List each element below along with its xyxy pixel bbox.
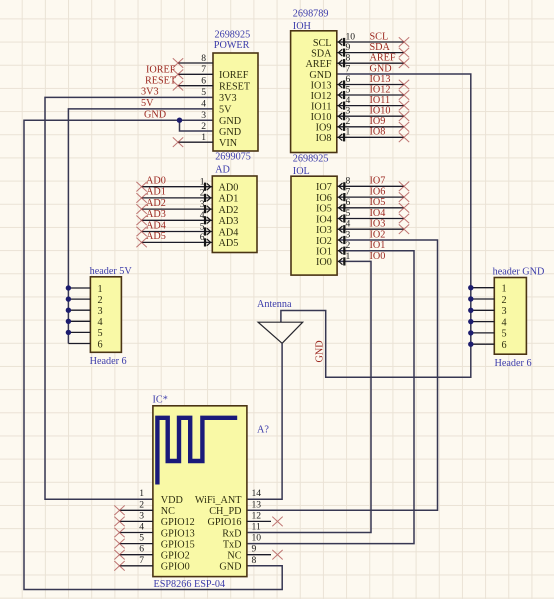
IOH pin 3 (IO10)	[337, 106, 409, 121]
label Antenna	[257, 299, 292, 310]
svg-text:SDA: SDA	[370, 42, 391, 53]
svg-text:AD3: AD3	[219, 216, 239, 227]
svg-text:Antenna: Antenna	[257, 299, 292, 310]
svg-text:10: 10	[252, 533, 262, 544]
header 5V pin 4	[68, 320, 90, 322]
svg-text:IO9: IO9	[370, 116, 386, 127]
net label IO11	[370, 95, 391, 106]
svg-text:SDA: SDA	[311, 48, 332, 59]
svg-text:GPIO0: GPIO0	[161, 562, 190, 573]
svg-text:IO8: IO8	[370, 127, 386, 138]
junction on GND bus	[468, 285, 473, 290]
svg-text:6: 6	[200, 232, 205, 243]
svg-text:IO4: IO4	[370, 208, 386, 219]
connector header GND	[493, 266, 545, 369]
net label IO3	[370, 219, 386, 230]
net label IO8	[370, 127, 386, 138]
svg-text:AD2: AD2	[146, 198, 166, 209]
svg-text:VIN: VIN	[219, 138, 238, 149]
svg-text:GPIO15: GPIO15	[161, 539, 195, 550]
ESP8266 pin 14 (WiFi_ANT)	[252, 488, 262, 499]
IOH pin 7 (GND)	[346, 63, 351, 74]
net GND wire: IOH GND to header GND bus to antenna gnd	[281, 74, 471, 377]
svg-text:IO7: IO7	[370, 176, 386, 187]
svg-text:2: 2	[502, 295, 507, 306]
ESP8266 pin 8 (GND)	[252, 555, 257, 566]
svg-text:10: 10	[346, 31, 356, 42]
IC U1 ESP8266 ESP-04 module	[153, 395, 247, 590]
IOH pin 1 (IO8)	[337, 127, 409, 142]
svg-text:Header 6: Header 6	[495, 358, 532, 369]
net label IO2	[370, 229, 386, 240]
svg-text:5: 5	[201, 87, 206, 98]
net label IO10	[370, 106, 391, 117]
svg-text:IO5: IO5	[370, 197, 386, 208]
svg-text:6: 6	[502, 340, 507, 351]
svg-text:IOL: IOL	[293, 166, 310, 177]
svg-text:GPIO16: GPIO16	[208, 517, 242, 528]
svg-text:6: 6	[346, 197, 351, 208]
svg-text:14: 14	[252, 488, 262, 499]
svg-text:13: 13	[252, 499, 262, 510]
net label GND	[144, 109, 166, 120]
net label IO7	[370, 176, 386, 187]
IOH pin 4 (IO11)	[337, 95, 409, 110]
net label 3V3	[141, 87, 159, 98]
junction on 5V bus	[66, 330, 71, 335]
AD pin 5 net AD4	[136, 221, 212, 236]
svg-text:6: 6	[346, 74, 351, 85]
svg-text:IC*: IC*	[153, 395, 168, 406]
connector header 5V	[90, 266, 133, 367]
net 5V wire: POWER pin4 to header 5V bus	[68, 109, 213, 344]
svg-text:1: 1	[98, 284, 103, 295]
svg-text:WiFi_ANT: WiFi_ANT	[195, 495, 242, 506]
svg-text:3: 3	[200, 199, 205, 210]
svg-text:5: 5	[139, 533, 144, 544]
IOH pin 8 (AREF)	[337, 53, 409, 68]
net WiFi_ANT wire: antenna apex to ESP8266 pin14	[247, 343, 282, 499]
svg-text:AD3: AD3	[146, 209, 166, 220]
svg-text:IO6: IO6	[316, 193, 332, 204]
svg-text:AREF: AREF	[305, 59, 331, 70]
net label IO12	[370, 84, 391, 95]
net label IO5	[370, 197, 386, 208]
ESP8266 pin 13 (CH_PD)	[252, 499, 262, 510]
svg-text:RxD: RxD	[222, 528, 241, 539]
junction on 5V bus	[66, 296, 71, 301]
wire GND jumper to POWER pin2	[180, 120, 214, 131]
svg-text:IO4: IO4	[316, 214, 332, 225]
svg-text:7: 7	[201, 64, 206, 75]
svg-text:ESP8266 ESP-04: ESP8266 ESP-04	[154, 579, 226, 590]
ESP8266 pin 12 (GPIO16)	[247, 510, 283, 526]
IOL pin 8 (IO7)	[337, 176, 409, 191]
svg-text:2: 2	[346, 240, 351, 251]
svg-text:IO3: IO3	[370, 219, 386, 230]
svg-text:8: 8	[346, 53, 351, 64]
svg-text:6: 6	[139, 544, 144, 555]
ESP8266 pin 7 (GPIO0)	[114, 555, 153, 571]
svg-text:GND: GND	[219, 116, 241, 127]
svg-text:IOREF: IOREF	[219, 70, 249, 81]
svg-text:IO11: IO11	[370, 95, 391, 106]
POWER pin 3	[201, 110, 206, 121]
svg-text:IO10: IO10	[370, 106, 391, 117]
IOH pin 9 (SDA)	[337, 42, 409, 57]
svg-text:7: 7	[346, 187, 351, 198]
svg-text:IO13: IO13	[311, 80, 332, 91]
junction on GND bus	[468, 308, 473, 313]
AD pin 4 net AD3	[136, 210, 212, 225]
svg-text:IO0: IO0	[316, 257, 332, 268]
svg-text:4: 4	[98, 317, 103, 328]
junction on 5V bus	[66, 285, 71, 290]
svg-text:4: 4	[502, 317, 507, 328]
IOL pin 6 (IO5)	[337, 197, 409, 212]
svg-text:1: 1	[139, 488, 144, 499]
svg-text:2: 2	[139, 499, 144, 510]
ESP8266 pin 1 (VDD)	[139, 488, 144, 499]
svg-text:3: 3	[346, 106, 351, 117]
POWER pin 4	[201, 99, 206, 110]
svg-text:IO12: IO12	[311, 91, 332, 102]
svg-text:GND: GND	[144, 109, 166, 120]
svg-text:9: 9	[252, 544, 257, 555]
IOL pin 4 (IO3)	[337, 219, 409, 234]
svg-text:6: 6	[98, 339, 103, 350]
svg-text:3: 3	[346, 229, 351, 240]
svg-text:7: 7	[139, 555, 144, 566]
ESP8266 pin 4 (GPIO13)	[114, 522, 153, 538]
IOH pin 5 (IO12)	[337, 84, 409, 99]
header 5V pin 6	[68, 343, 90, 345]
POWER pin 5	[201, 87, 206, 98]
svg-text:2: 2	[201, 121, 206, 132]
svg-text:GPIO13: GPIO13	[161, 528, 195, 539]
header 5V pin 3	[68, 309, 90, 311]
connector IOH (2698789)	[291, 9, 337, 153]
svg-text:IOREF: IOREF	[146, 65, 176, 76]
svg-text:GPIO2: GPIO2	[161, 551, 190, 562]
svg-text:1: 1	[200, 177, 205, 188]
svg-text:3V3: 3V3	[141, 87, 159, 98]
net label IO13	[370, 74, 391, 85]
svg-text:IO11: IO11	[311, 101, 332, 112]
net IO2 wire: IOL to ESP8266 CH_PD	[247, 240, 438, 510]
POWER pin 7	[173, 64, 213, 79]
POWER pin 1	[173, 132, 213, 147]
svg-text:SCL: SCL	[313, 38, 332, 49]
svg-text:2: 2	[346, 116, 351, 127]
svg-text:8: 8	[201, 53, 206, 64]
connector AD (2699075)	[212, 152, 257, 253]
svg-text:VDD: VDD	[161, 495, 183, 506]
net label AD1	[146, 187, 166, 198]
net label IO9	[370, 116, 386, 127]
svg-text:IO0: IO0	[370, 251, 386, 262]
svg-text:GND: GND	[219, 562, 241, 573]
svg-text:5: 5	[98, 328, 103, 339]
ESP8266 pin 9 (NC)	[247, 544, 283, 560]
header GND pin 6	[471, 343, 495, 345]
header 5V pin 1	[68, 287, 90, 289]
svg-text:GND: GND	[219, 127, 241, 138]
IOH pin 6 (IO13)	[337, 74, 409, 89]
junction on GND at POWER pin2 drop	[177, 118, 182, 123]
svg-text:4: 4	[346, 219, 351, 230]
ESP8266 pcb antenna trace graphic	[157, 418, 237, 485]
svg-text:AD1: AD1	[219, 194, 239, 205]
header GND pin 5	[471, 332, 495, 334]
svg-text:NC: NC	[161, 506, 175, 517]
label A?	[257, 425, 269, 436]
svg-text:2698925: 2698925	[293, 153, 329, 164]
POWER pin 6	[173, 76, 213, 91]
svg-text:5: 5	[346, 208, 351, 219]
IOL pin 2 (IO1)	[339, 240, 351, 255]
ESP8266 pin 11 (RxD)	[252, 522, 261, 533]
net label AD0	[146, 176, 166, 187]
svg-text:3V3: 3V3	[219, 93, 237, 104]
svg-text:IO10: IO10	[311, 112, 332, 123]
svg-text:GND: GND	[370, 63, 392, 74]
IOH pin 10 (SCL)	[337, 31, 409, 46]
svg-text:AD2: AD2	[219, 205, 239, 216]
net IO1 wire: IOL to ESP8266 TxD	[247, 251, 414, 544]
svg-text:5: 5	[502, 329, 507, 340]
svg-text:AD1: AD1	[146, 187, 166, 198]
svg-text:IO9: IO9	[316, 123, 332, 134]
svg-text:6: 6	[201, 76, 206, 87]
svg-text:5: 5	[346, 84, 351, 95]
net label IO0	[370, 251, 386, 262]
net GND wire: POWER pin3 to bottom rail to ESP8266 pin8	[24, 120, 282, 589]
svg-text:3: 3	[139, 510, 144, 521]
net label AD3	[146, 209, 166, 220]
svg-text:TxD: TxD	[223, 539, 242, 550]
svg-text:AD4: AD4	[219, 227, 239, 238]
ESP8266 pin 5 (GPIO15)	[114, 533, 153, 549]
header GND pin 2	[471, 298, 495, 300]
svg-text:CH_PD: CH_PD	[209, 506, 241, 517]
svg-text:12: 12	[252, 510, 262, 521]
svg-text:IO8: IO8	[316, 133, 332, 144]
svg-text:2699075: 2699075	[215, 152, 251, 163]
antenna symbol	[258, 322, 303, 343]
svg-text:2698925: 2698925	[215, 30, 251, 41]
svg-text:1: 1	[201, 132, 206, 143]
svg-text:8: 8	[252, 555, 257, 566]
svg-text:5V: 5V	[219, 105, 232, 116]
header GND pin 3	[471, 309, 495, 311]
svg-text:RESET: RESET	[145, 76, 177, 87]
net label AREF	[370, 53, 396, 64]
svg-text:AD4: AD4	[146, 220, 166, 231]
IOH pin 2 (IO9)	[337, 116, 409, 131]
connector IOL (2698925)	[291, 153, 337, 275]
svg-text:IO5: IO5	[316, 204, 332, 215]
svg-text:GND: GND	[309, 70, 331, 81]
svg-text:IO1: IO1	[370, 240, 386, 251]
svg-text:IO12: IO12	[370, 84, 391, 95]
svg-text:1: 1	[346, 127, 351, 138]
svg-text:5: 5	[200, 221, 205, 232]
svg-text:4: 4	[201, 99, 206, 110]
POWER pin 2	[201, 121, 206, 132]
junction on GND bus	[468, 319, 473, 324]
header GND pin 1	[471, 287, 495, 289]
net label IO4	[370, 208, 386, 219]
svg-text:header 5V: header 5V	[90, 266, 133, 277]
svg-text:IO3: IO3	[316, 225, 332, 236]
svg-text:1: 1	[502, 284, 507, 295]
svg-text:3: 3	[502, 306, 507, 317]
header GND pin 4	[471, 321, 495, 323]
ESP8266 pin 3 (GPIO12)	[114, 510, 153, 526]
svg-text:AREF: AREF	[370, 53, 396, 64]
svg-text:AD5: AD5	[146, 231, 166, 242]
net label GND	[370, 63, 392, 74]
svg-text:2: 2	[98, 295, 103, 306]
svg-text:RESET: RESET	[219, 82, 251, 93]
svg-text:IO1: IO1	[316, 247, 332, 258]
IOL pin 3 (IO2)	[339, 229, 351, 244]
svg-text:AD: AD	[215, 164, 230, 175]
svg-text:IOH: IOH	[293, 21, 312, 32]
svg-text:8: 8	[346, 176, 351, 187]
net label GND (rotated, antenna ground)	[315, 340, 326, 362]
svg-text:2698789: 2698789	[293, 9, 329, 20]
IOL pin 1 (IO0)	[339, 251, 351, 266]
svg-text:AD5: AD5	[219, 238, 239, 249]
svg-text:5V: 5V	[141, 98, 154, 109]
svg-text:7: 7	[346, 63, 351, 74]
svg-text:3: 3	[98, 306, 103, 317]
net label 5V	[141, 98, 154, 109]
svg-text:GPIO12: GPIO12	[161, 517, 195, 528]
svg-text:AD0: AD0	[146, 176, 166, 187]
header 5V pin 5	[68, 331, 90, 333]
header 5V pin 2	[68, 298, 90, 300]
svg-text:1: 1	[346, 251, 351, 262]
svg-text:POWER: POWER	[214, 40, 250, 51]
IOL pin 5 (IO4)	[337, 208, 409, 223]
net label IO1	[370, 240, 386, 251]
net label AD4	[146, 220, 166, 231]
svg-text:Header 6: Header 6	[90, 356, 127, 367]
svg-text:4: 4	[139, 522, 144, 533]
AD pin 1 net AD0	[136, 177, 212, 192]
svg-text:3: 3	[201, 110, 206, 121]
ESP8266 pin 6 (GPIO2)	[114, 544, 153, 560]
svg-text:4: 4	[346, 95, 351, 106]
AD pin 3 net AD2	[136, 199, 212, 214]
net label SDA	[370, 42, 391, 53]
junction on GND bus	[468, 296, 473, 301]
net IO0 wire: IOL to ESP8266 RxD	[247, 261, 371, 532]
AD pin 6 net AD5	[136, 232, 212, 247]
ESP8266 pin 10 (TxD)	[252, 533, 262, 544]
net label RESET	[145, 76, 177, 87]
net label SCL	[370, 31, 389, 42]
ESP8266 pin 2 (NC)	[114, 499, 153, 515]
net label AD2	[146, 198, 166, 209]
svg-text:2: 2	[200, 188, 205, 199]
svg-text:header GND: header GND	[493, 266, 545, 277]
svg-text:AD0: AD0	[219, 183, 239, 194]
svg-text:9: 9	[346, 42, 351, 53]
svg-text:IO13: IO13	[370, 74, 391, 85]
junction on GND bus	[468, 330, 473, 335]
net label IO6	[370, 187, 386, 198]
svg-text:IO7: IO7	[316, 182, 332, 193]
svg-text:IO6: IO6	[370, 187, 386, 198]
svg-text:11: 11	[252, 522, 261, 533]
POWER pin 8	[173, 53, 213, 68]
svg-text:GND: GND	[315, 340, 326, 362]
svg-text:4: 4	[200, 210, 205, 221]
svg-text:NC: NC	[227, 551, 241, 562]
junction on 5V bus	[66, 308, 71, 313]
connector POWER (2698925)	[213, 30, 258, 152]
svg-text:SCL: SCL	[370, 31, 389, 42]
IOL pin 7 (IO6)	[337, 187, 409, 202]
net label AD5	[146, 231, 166, 242]
net label IOREF	[146, 65, 176, 76]
svg-text:A?: A?	[257, 425, 269, 436]
svg-text:IO2: IO2	[316, 236, 332, 247]
svg-text:IO2: IO2	[370, 229, 386, 240]
junction on 5V bus	[66, 319, 71, 324]
AD pin 2 net AD1	[136, 188, 212, 203]
junction on GND bus	[468, 342, 473, 347]
net 3V3 wire: POWER pin5 to ESP8266 pin1 VDD	[45, 97, 213, 499]
